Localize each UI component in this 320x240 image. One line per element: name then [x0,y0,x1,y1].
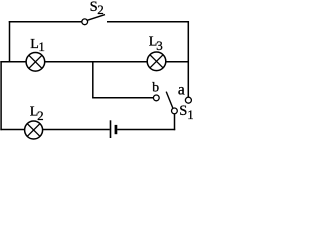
battery cell [111,120,118,138]
svg-text:2: 2 [37,108,44,123]
bottom wire right of battery [117,129,175,131]
middle row wire [0,61,188,63]
svg-text:3: 3 [156,38,163,53]
wire middle vertical junction drop [92,62,94,98]
svg-text:S: S [179,103,187,119]
switch S2 [82,15,105,25]
svg-text:1: 1 [187,107,193,122]
right rail wire [187,21,189,97]
svg-text:a: a [178,81,185,98]
svg-text:b: b [152,81,159,96]
svg-text:2: 2 [97,2,104,17]
bottom wire left of battery [0,129,109,131]
wire top-right segment [107,21,189,23]
svg-text:1: 1 [38,39,45,54]
left rail wire lower [0,61,2,130]
lamp L3 [147,52,166,71]
wire to node b [92,97,153,99]
switch S1 [166,92,177,114]
wire S1 lead vertical [174,114,176,131]
wire top-left segment [9,21,82,23]
node a contact [185,97,191,103]
left rail wire upper [9,21,11,62]
lamp L1 [26,53,45,72]
lamp L2 [25,121,43,139]
node b contact [153,95,159,101]
